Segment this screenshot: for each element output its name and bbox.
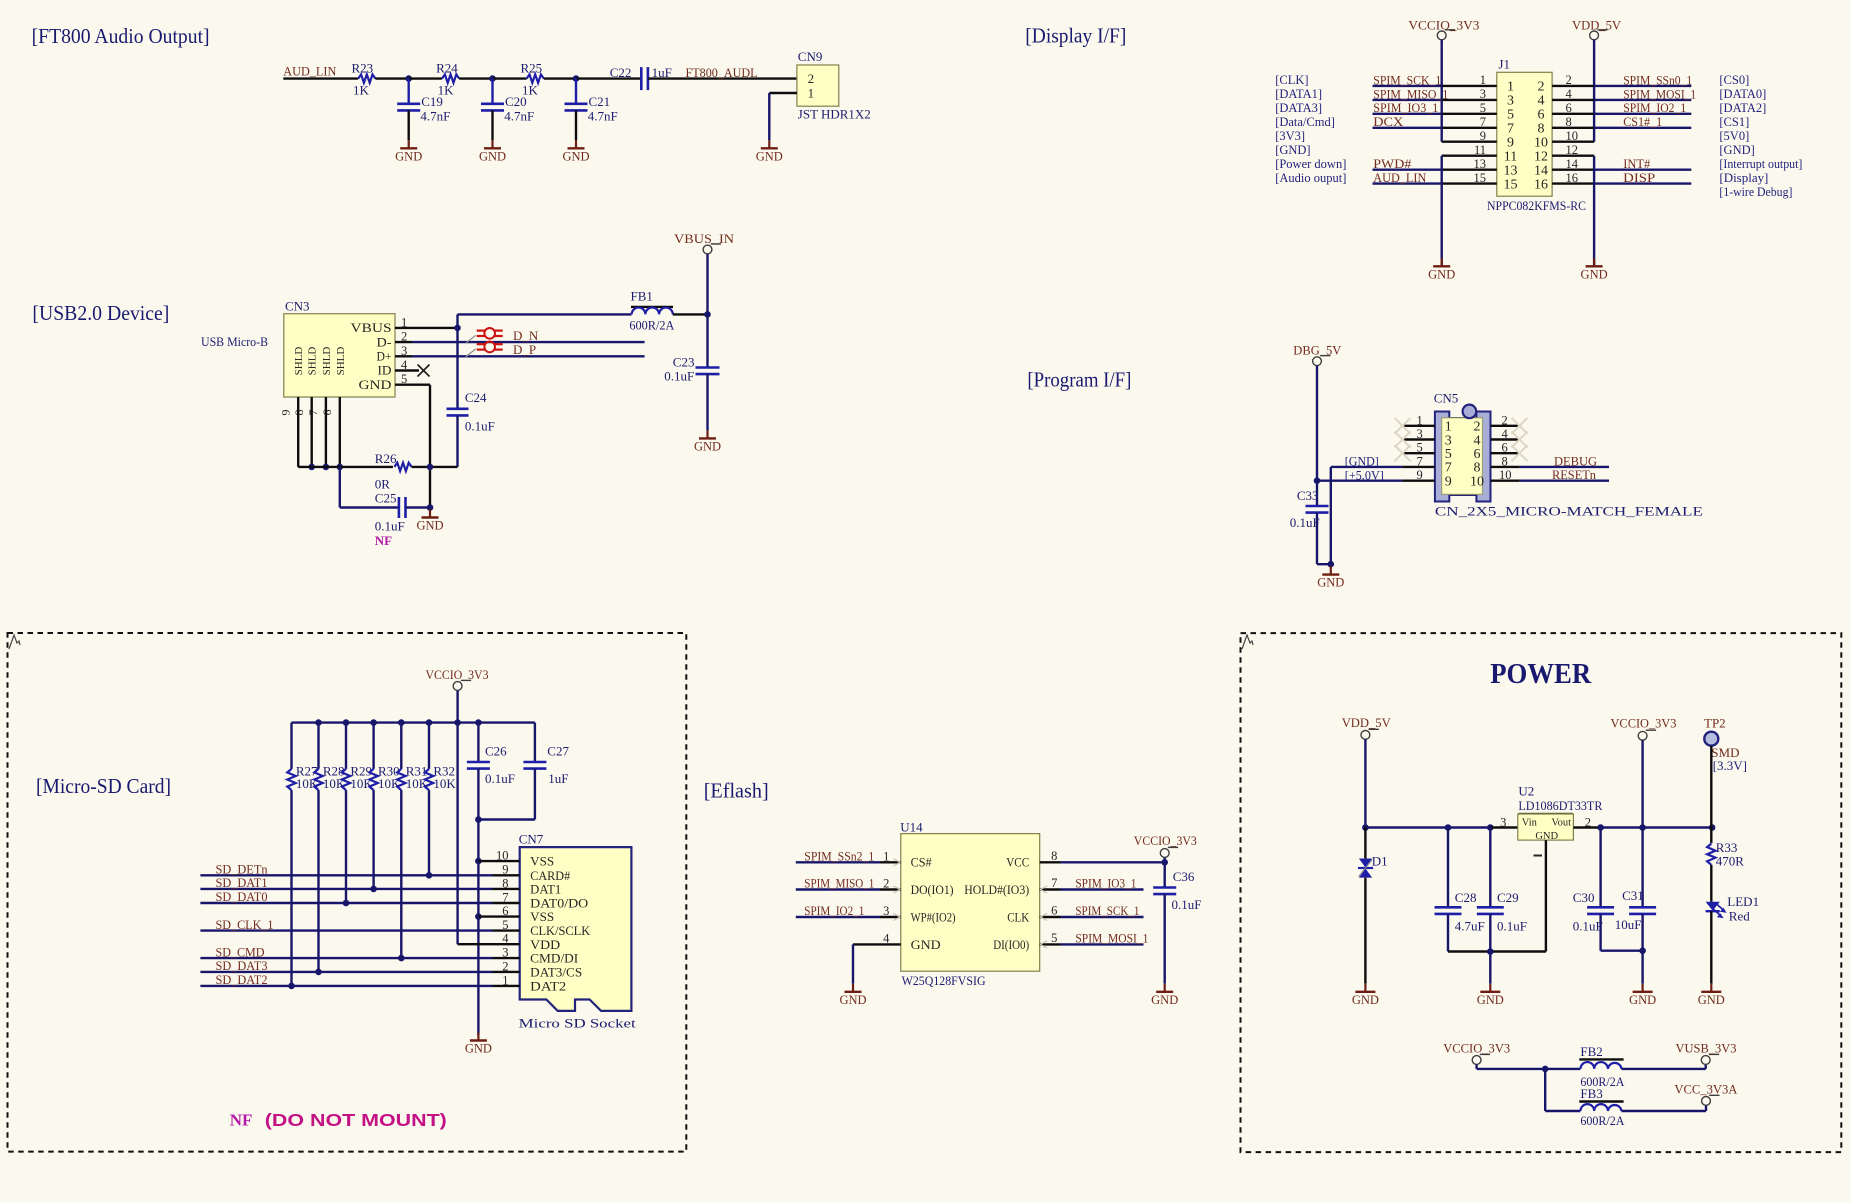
CN5 polarity circle [1463, 405, 1477, 419]
CN5 right pin stub 4 [1491, 438, 1520, 440]
svg-text:R26: R26 [375, 451, 397, 466]
svg-text:15: 15 [1504, 177, 1518, 192]
svg-text:7: 7 [1480, 115, 1486, 129]
CN5 left pin stub 5 [1402, 452, 1435, 454]
svg-text:DAT0/DO: DAT0/DO [530, 897, 588, 911]
svg-text:U2: U2 [1518, 784, 1534, 799]
svg-text:CARD#: CARD# [530, 869, 571, 883]
svg-text:Red: Red [1729, 909, 1750, 924]
node junction SD_CMD pull-up [398, 955, 405, 962]
svg-text:TP2: TP2 [1704, 716, 1726, 731]
no-connect X CN5 right pin 2 [1512, 418, 1528, 434]
svg-text:VCCIO_3V3: VCCIO_3V3 [1408, 18, 1479, 33]
wire VBUS riser to FB1 rail [456, 314, 458, 328]
svg-text:VBUS_IN: VBUS_IN [674, 231, 735, 246]
node junction VCCIO out [1639, 824, 1646, 831]
svg-text:3: 3 [883, 904, 889, 918]
IC U14 W25Q128FVSIG body [901, 834, 1040, 972]
wire CN7 pin4 VDD [458, 943, 520, 945]
svg-text:VDD_5V: VDD_5V [1342, 715, 1392, 730]
wire VCCIO to FB2 [1477, 1068, 1581, 1070]
svg-text:SPIM_IO2_1: SPIM_IO2_1 [804, 903, 864, 918]
svg-text:GND: GND [562, 149, 589, 163]
svg-text:5: 5 [1417, 441, 1423, 455]
svg-text:[3V3]: [3V3] [1275, 129, 1305, 143]
svg-text:0.1uF: 0.1uF [485, 771, 515, 786]
J1 left pin stub 3 [1442, 99, 1497, 101]
node junction TP2 R33 [1709, 824, 1716, 831]
wire CN3 D+ pin3 D_P [395, 355, 412, 357]
input arrow pin 5 [1040, 941, 1047, 945]
svg-text:GND: GND [479, 149, 506, 163]
svg-text:[USB2.0 Device]: [USB2.0 Device] [32, 301, 169, 325]
capacitor C19 4.7nF [408, 79, 410, 104]
svg-text:1: 1 [1480, 73, 1486, 87]
svg-text:GND: GND [465, 1042, 492, 1056]
svg-text:2: 2 [1566, 73, 1572, 87]
svg-text:SPIM_SSn0_1: SPIM_SSn0_1 [1623, 72, 1692, 87]
svg-text:D_P: D_P [513, 342, 536, 357]
node junction C20 [489, 75, 496, 82]
power symbol VCCIO_3V3 power out [1638, 731, 1647, 740]
CN5 left pin stub 9 [1402, 480, 1435, 482]
J1 right pin stub 4 [1552, 99, 1594, 101]
node junction C30 [1597, 824, 1604, 831]
svg-text:LED1: LED1 [1727, 894, 1759, 909]
svg-text:5: 5 [1051, 931, 1057, 945]
connector CN5 housing [1435, 412, 1491, 502]
CN3 shield pin wires [297, 397, 299, 467]
J1 right pin stub 10 [1552, 140, 1594, 142]
svg-text:CS1#_1: CS1#_1 [1623, 114, 1662, 129]
wire FB1 to VBUS_IN node [673, 313, 708, 315]
svg-text:2: 2 [1538, 80, 1545, 95]
svg-text:6: 6 [320, 410, 334, 416]
svg-text:[DATA3]: [DATA3] [1275, 101, 1322, 115]
svg-text:0.1uF: 0.1uF [1497, 919, 1527, 934]
svg-text:GND: GND [1428, 267, 1455, 281]
wire CN3 GND pin5 [395, 384, 430, 386]
svg-text:600R/2A: 600R/2A [629, 318, 675, 333]
svg-text:SPIM_MISO_1: SPIM_MISO_1 [804, 876, 874, 891]
wire R33 to LED1 [1710, 865, 1712, 902]
svg-text:4.7nF: 4.7nF [504, 109, 534, 124]
svg-text:C30: C30 [1573, 890, 1595, 905]
wire C26 C27 bottom join [478, 818, 535, 820]
ground below C19 [408, 140, 410, 148]
svg-text:Vin: Vin [1522, 818, 1538, 829]
connector CN3 USB Micro-B body [284, 314, 395, 397]
no-connect X CN5 left pin 3 [1395, 432, 1411, 448]
ferrite bead FB3 [1579, 1100, 1623, 1102]
J1 right pin stub 16 [1552, 182, 1594, 184]
node junction R26 C24 [427, 464, 434, 471]
svg-text:SPIM_IO3_1: SPIM_IO3_1 [1075, 876, 1136, 891]
svg-text:W25Q128FVSIG: W25Q128FVSIG [902, 973, 986, 988]
svg-text:3: 3 [1480, 87, 1486, 101]
svg-text:DBG_5V: DBG_5V [1293, 342, 1342, 357]
svg-text:C25: C25 [375, 491, 397, 506]
svg-text:CLK/SCLK: CLK/SCLK [530, 924, 590, 938]
svg-text:C27: C27 [547, 743, 569, 758]
wire U14 GND pin 4 [853, 943, 901, 945]
ground below D1 [1364, 984, 1366, 992]
svg-text:VSS: VSS [530, 910, 554, 924]
no-connect X CN5 right pin 6 [1512, 445, 1528, 461]
wire CN5 pin8 DEBUG [1520, 466, 1609, 468]
node junction gnd below C29 [1487, 948, 1494, 955]
ground below C31 [1641, 984, 1643, 992]
LED LED1 Red [1706, 902, 1720, 911]
wire J1 left row 7 [1373, 127, 1442, 129]
svg-text:DCX: DCX [1373, 114, 1404, 129]
CN3 ID pin4 stub [395, 369, 419, 371]
wire C30 to C31 gnd join [1601, 950, 1643, 952]
svg-text:GND: GND [1151, 993, 1178, 1007]
svg-text:GND: GND [839, 993, 866, 1007]
wire input rail [1365, 826, 1490, 828]
resistor R25 [527, 74, 544, 82]
svg-text:GND: GND [416, 519, 443, 533]
svg-text:C28: C28 [1455, 890, 1477, 905]
wire VCCIO drop through rail to C31 [1641, 740, 1643, 907]
wire branch to FB3 [1545, 1110, 1580, 1112]
svg-text:DI(IO0): DI(IO0) [993, 937, 1029, 952]
svg-text:470R: 470R [1716, 854, 1745, 869]
svg-text:PWD#: PWD# [1373, 156, 1412, 171]
node shield bus junctions [308, 464, 315, 471]
ground below C21 [575, 140, 577, 148]
svg-text:16: 16 [1566, 171, 1579, 185]
svg-text:2: 2 [808, 71, 815, 86]
node junction C25 gnd [427, 504, 434, 511]
svg-text:[1-wire Debug]: [1-wire Debug] [1719, 185, 1792, 199]
svg-text:SPIM_MOSI_1: SPIM_MOSI_1 [1623, 86, 1696, 101]
svg-text:SD_CLK_1: SD_CLK_1 [216, 917, 274, 932]
wire LED1 to ground [1710, 911, 1712, 984]
wire CN7 row 9 net SD_DETn [200, 874, 492, 876]
wire J1 left row 5 [1373, 113, 1442, 115]
wire C28 C29 U2gnd bottom join [1448, 950, 1546, 952]
continuation caret mark [9, 635, 20, 649]
J1 right pin stub 12 [1552, 154, 1594, 156]
svg-text:U14: U14 [900, 820, 923, 835]
capacitor C23 0.1uF [706, 314, 708, 367]
wire CN7 row 8 net SD_DAT1 [200, 888, 492, 890]
node junction pin6 [475, 913, 482, 920]
svg-text:GND: GND [756, 149, 783, 163]
power symbol VCCIO_3V3 sd [453, 682, 462, 691]
svg-text:10: 10 [1499, 468, 1512, 482]
svg-text:6: 6 [1566, 101, 1572, 115]
svg-text:GND: GND [1317, 576, 1344, 590]
power symbol VCCIO_3V3 display [1437, 31, 1446, 40]
svg-text:(DO NOT MOUNT): (DO NOT MOUNT) [265, 1110, 447, 1130]
svg-text:C21: C21 [589, 94, 611, 109]
svg-text:USB Micro-B: USB Micro-B [201, 334, 268, 349]
input arrow pin 6 [1040, 913, 1047, 917]
svg-text:HOLD#(IO3): HOLD#(IO3) [964, 882, 1029, 897]
svg-text:[Data/Cmd]: [Data/Cmd] [1275, 115, 1335, 129]
wire J1 pin11 ground drop [1440, 156, 1442, 266]
node junction C19 [405, 75, 412, 82]
wire FB3 branch drop [1544, 1069, 1546, 1111]
svg-text:4: 4 [1502, 427, 1509, 441]
svg-text:DO(IO1): DO(IO1) [911, 882, 954, 897]
svg-text:SD_DAT2: SD_DAT2 [216, 972, 268, 987]
wire J1 right row 16 [1594, 182, 1691, 184]
svg-text:7: 7 [1051, 876, 1057, 890]
svg-text:14: 14 [1566, 157, 1579, 171]
node junction C28 [1445, 824, 1452, 831]
node junction SD_DETn pull-up [426, 872, 433, 879]
wire U14 VCC pin 8 [1040, 861, 1061, 863]
wire TP2 to rail [1710, 746, 1712, 828]
svg-text:SPIM_MOSI_1: SPIM_MOSI_1 [1075, 930, 1148, 945]
wire CN7 row 1 net SD_DAT2 [200, 985, 492, 987]
svg-text:POWER: POWER [1490, 658, 1592, 690]
svg-text:[Power down]: [Power down] [1275, 157, 1346, 171]
wire pull-up bus [292, 721, 535, 723]
svg-text:1: 1 [883, 849, 889, 863]
wire C25 branch left [339, 467, 341, 508]
svg-text:1: 1 [808, 86, 815, 101]
svg-text:FB1: FB1 [631, 289, 653, 304]
wire CN9 pin1 to ground [769, 92, 797, 94]
U2 pin1 dash mark [1534, 855, 1543, 857]
CN5 right pin stub 10 [1491, 480, 1520, 482]
J1 left pin stub 7 [1442, 127, 1497, 129]
wire to ground below C29 [1489, 952, 1491, 984]
node junctions pull-up bus [315, 719, 322, 726]
node junction below C26 [475, 816, 482, 823]
wire CN5 pin9 +5V net [1317, 480, 1402, 482]
wire J1 right row 4 [1594, 99, 1691, 101]
svg-text:10uF: 10uF [1615, 917, 1642, 932]
svg-text:[Audio ouput]: [Audio ouput] [1275, 171, 1346, 185]
wire R24 to node2 [459, 77, 492, 79]
ground below C29 [1489, 984, 1491, 992]
svg-text:Micro SD Socket: Micro SD Socket [519, 1016, 636, 1031]
svg-text:8: 8 [1566, 115, 1572, 129]
svg-text:VCCIO_3V3: VCCIO_3V3 [1443, 1041, 1510, 1056]
node junction VCC C36 [1161, 859, 1168, 866]
svg-text:[CS1]: [CS1] [1719, 115, 1749, 129]
svg-text:4: 4 [883, 931, 890, 945]
ground below CN5 [1330, 567, 1332, 575]
svg-text:R23: R23 [352, 61, 374, 76]
wire CN7 row 5 net SD_CLK_1 [200, 929, 492, 931]
svg-text:[Display]: [Display] [1719, 171, 1768, 185]
svg-text:11: 11 [1474, 143, 1486, 157]
wire J1 left row 3 [1373, 99, 1442, 101]
input arrow pin 3 [893, 913, 900, 917]
wire D1 to ground [1364, 878, 1366, 984]
wire CN7 row 7 net SD_DAT0 [200, 902, 492, 904]
svg-text:SHLD: SHLD [307, 347, 319, 376]
svg-text:RESETn: RESETn [1552, 467, 1596, 482]
node junction SD_DAT0 pull-up [343, 900, 350, 907]
wire node2 to R25 [493, 77, 527, 79]
power symbol VDD_5V display [1590, 31, 1599, 40]
node junction pin10 [475, 858, 482, 865]
svg-text:0R: 0R [375, 477, 391, 492]
node junction below C31 [1639, 947, 1646, 954]
svg-text:CS#: CS# [911, 855, 932, 870]
svg-text:3: 3 [1417, 427, 1423, 441]
CN5 left pin stub 1 [1402, 425, 1435, 427]
svg-text:0.1uF: 0.1uF [375, 519, 405, 534]
wire output rail [1601, 826, 1713, 828]
svg-text:[3.3V]: [3.3V] [1713, 758, 1747, 773]
svg-text:LD1086DT33TR: LD1086DT33TR [1518, 798, 1602, 813]
ground below C25 node [429, 508, 431, 510]
wire DBG_5V drop [1316, 366, 1318, 506]
dashed box Micro-SD Card section [8, 633, 687, 1152]
svg-text:CN_2X5_MICRO-MATCH_FEMALE: CN_2X5_MICRO-MATCH_FEMALE [1435, 504, 1703, 519]
wire to ground below C31 [1641, 951, 1643, 984]
capacitor C22 1uF [640, 67, 643, 90]
wire C26 node to CN7 and ground [477, 820, 479, 1036]
svg-text:VBUS: VBUS [351, 321, 392, 335]
svg-text:4.7nF: 4.7nF [588, 109, 618, 124]
power symbol VCCIO_3V3 fb [1472, 1056, 1481, 1065]
wire C33 bottom to gnd node [1317, 563, 1331, 565]
svg-text:SPIM_SCK_1: SPIM_SCK_1 [1075, 903, 1139, 918]
svg-text:[Program I/F]: [Program I/F] [1027, 368, 1131, 392]
svg-text:DISP: DISP [1623, 170, 1655, 185]
wire VDD_5V drop to rail [1364, 739, 1366, 827]
CN5 right pin stub 8 [1491, 466, 1520, 468]
wire CN5 pin10 RESETn [1520, 480, 1609, 482]
resistor R28 10K [317, 723, 319, 769]
svg-text:R24: R24 [436, 61, 458, 76]
svg-text:DAT1: DAT1 [530, 883, 561, 897]
connector CN9 JST HDR1X2 [797, 65, 839, 106]
wire VBUS_IN drop [706, 254, 708, 314]
diff pair marker D_P [477, 343, 486, 345]
power symbol VDD_5V power [1361, 731, 1370, 740]
resistor R29 10K [345, 723, 347, 769]
svg-text:C19: C19 [421, 94, 443, 109]
svg-text:SHLD: SHLD [335, 347, 347, 376]
wire J1 right row 6 [1594, 113, 1691, 115]
node junction CN5 gnd [1328, 561, 1335, 568]
wire C22 to CN9 [648, 77, 797, 79]
CN5 left pin stub 7 [1402, 466, 1435, 468]
wire VCCIO_3V3 sd drop [456, 690, 458, 722]
svg-text:VCC_3V3A: VCC_3V3A [1674, 1082, 1738, 1097]
svg-text:[Display I/F]: [Display I/F] [1025, 24, 1126, 48]
svg-text:GND: GND [911, 937, 941, 952]
wire VDD_5V drop to J1 pin10 [1593, 40, 1595, 142]
svg-text:13: 13 [1474, 157, 1487, 171]
ground below LED1 [1710, 984, 1712, 992]
svg-text:GND: GND [359, 378, 392, 392]
svg-text:[FT800 Audio Output]: [FT800 Audio Output] [32, 24, 210, 48]
ground below U14 [852, 984, 854, 992]
svg-text:5: 5 [1507, 108, 1514, 123]
capacitor C21 4.7nF [575, 79, 577, 104]
CN5 right pin stub 2 [1491, 425, 1520, 427]
svg-text:[GND]: [GND] [1275, 143, 1310, 157]
wire CN7 row 3 net SD_CMD [200, 957, 492, 959]
capacitor C36 0.1uF [1163, 862, 1165, 887]
svg-text:D1: D1 [1372, 854, 1388, 869]
svg-text:C29: C29 [1497, 890, 1519, 905]
svg-text:SPIM_MISO_1: SPIM_MISO_1 [1373, 86, 1448, 101]
svg-text:GND: GND [395, 149, 422, 163]
ground below J1 right [1593, 258, 1595, 266]
svg-text:GND: GND [1477, 993, 1504, 1007]
resistor R27 10K [290, 723, 292, 769]
svg-text:4.7nF: 4.7nF [420, 109, 450, 124]
resistor R31 10K [400, 723, 402, 769]
wire J1 right row 14 [1594, 168, 1691, 170]
input arrow pin 1 [893, 859, 900, 863]
power symbol VUSB_3V3 [1701, 1056, 1710, 1065]
wire node3 to C22 [576, 77, 641, 79]
svg-text:VCC: VCC [1006, 855, 1029, 870]
CN5 inner yellow body [1442, 418, 1483, 495]
no-connect X CN5 left pin 1 [1395, 418, 1411, 434]
svg-text:SD_DAT0: SD_DAT0 [216, 889, 268, 904]
svg-text:J1: J1 [1498, 57, 1510, 72]
ground below C20 [491, 140, 493, 148]
svg-text:SPIM_SCK_1: SPIM_SCK_1 [1373, 72, 1441, 87]
svg-text:[Interrupt output]: [Interrupt output] [1719, 157, 1802, 171]
wire CN3 VBUS pin1 [395, 327, 458, 329]
node junction SD_DAT3 pull-up [315, 969, 322, 976]
wire VCCIO vertical to pin4 [456, 723, 458, 945]
node junction C21 [573, 75, 580, 82]
node junction DBG_5V pin9 [1314, 477, 1321, 484]
svg-text:8: 8 [1474, 461, 1481, 476]
svg-text:VDD_5V: VDD_5V [1572, 18, 1622, 33]
resistor R23 [358, 74, 375, 82]
ground below J1 left [1441, 258, 1443, 266]
capacitor C30 0.1uF [1599, 828, 1601, 908]
wire U14 pin 5 net SPIM_MOSI_1 [1040, 943, 1061, 945]
wire U14 pin 6 net SPIM_SCK_1 [1040, 916, 1061, 918]
svg-text:GND: GND [694, 439, 721, 453]
svg-text:SD_DAT3: SD_DAT3 [216, 958, 268, 973]
node junction VBUS_IN [704, 311, 711, 318]
svg-text:6: 6 [1538, 108, 1545, 123]
svg-text:DAT3/CS: DAT3/CS [530, 966, 582, 980]
wire rail to U2 Vin [1490, 826, 1518, 828]
ground below sd [477, 1033, 479, 1041]
svg-text:7: 7 [1445, 461, 1452, 476]
svg-text:1: 1 [1507, 80, 1514, 95]
J1 right pin stub 14 [1552, 168, 1594, 170]
svg-text:SD_DAT1: SD_DAT1 [216, 875, 268, 890]
svg-text:600R/2A: 600R/2A [1580, 1113, 1625, 1128]
svg-text:10K: 10K [350, 776, 373, 791]
svg-text:10K: 10K [378, 776, 401, 791]
svg-text:CLK: CLK [1007, 909, 1030, 924]
node junction C29 [1487, 824, 1494, 831]
svg-text:0.1uF: 0.1uF [465, 419, 495, 434]
no-connect X CN5 right pin 4 [1512, 432, 1528, 448]
svg-text:9: 9 [279, 410, 293, 416]
svg-text:[5V0]: [5V0] [1719, 129, 1749, 143]
wire U2 Vout to rail right [1573, 826, 1600, 828]
ferrite bead FB2 [1579, 1058, 1623, 1060]
svg-text:C24: C24 [465, 390, 487, 405]
svg-text:12: 12 [1534, 150, 1548, 165]
resistor R24 [442, 74, 459, 82]
